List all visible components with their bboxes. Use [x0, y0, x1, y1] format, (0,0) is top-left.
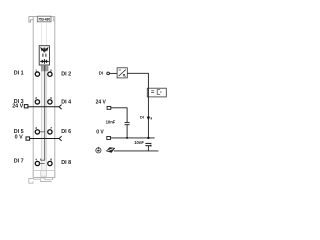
svg-text:DI 6: DI 6 — [61, 129, 71, 135]
svg-text:DI 7: DI 7 — [14, 158, 24, 164]
svg-text:0 V: 0 V — [96, 129, 104, 135]
DIN rail / shield clamp symbol — [106, 147, 115, 153]
0V feed wire — [30, 138, 59, 140]
upper wire channel — [42, 22, 47, 46]
junction dot DI wire/0V — [147, 137, 149, 139]
module part label box 753-430 — [37, 16, 51, 22]
svg-text:24 V: 24 V — [96, 99, 107, 105]
0V pass-through fork — [59, 136, 62, 141]
label 8 (channel marker) — [150, 145, 151, 147]
wire channel exit tab — [41, 171, 47, 177]
DIN rail foot — [29, 171, 55, 184]
LED symbols (antiparallel diode pair, top) — [40, 47, 48, 57]
terminal 6 — [48, 100, 52, 104]
wire 24V to filter cap — [111, 108, 127, 123]
0V rail wire — [111, 137, 155, 139]
svg-text:DI 1: DI 1 — [14, 71, 24, 77]
clamp spring hatch under LED box — [41, 65, 48, 71]
wire converter to bus line — [127, 73, 148, 88]
signal wire down through isolation — [147, 88, 149, 138]
svg-text:DI 4: DI 4 — [61, 100, 71, 106]
svg-text:DI 2: DI 2 — [61, 71, 71, 77]
0V field terminal (square) — [26, 137, 30, 140]
terminal 7 — [48, 130, 52, 134]
svg-text:10nF: 10nF — [134, 140, 144, 145]
wire stub row 3 — [40, 131, 45, 133]
24V terminal (schematic, square) — [107, 106, 111, 109]
24V feed wire — [28, 106, 59, 108]
center wiring channel — [41, 65, 46, 171]
schematic: DI input terminal — [107, 72, 110, 75]
terminal 2 — [35, 100, 39, 104]
0V terminal (schematic, square) — [107, 137, 111, 140]
internal signal wire — [41, 65, 45, 160]
terminal 4 — [35, 161, 39, 165]
filter capacitor C2 — [145, 143, 151, 151]
svg-text:0 V: 0 V — [15, 134, 23, 140]
terminal 1 — [35, 72, 39, 76]
junction dot C1/0V — [126, 137, 128, 139]
svg-text:753-430: 753-430 — [38, 18, 50, 22]
input signal conditioner U1 — [117, 68, 127, 78]
isolation / system interface box — [147, 88, 166, 97]
24V field terminal (square) — [24, 105, 28, 108]
terminal 3 — [35, 130, 39, 134]
wire stub row 4 — [40, 163, 45, 165]
svg-text:DI: DI — [140, 115, 144, 120]
earth rail wire — [114, 150, 159, 152]
label DI 1 with arrow — [140, 115, 152, 121]
svg-text:10nF: 10nF — [106, 120, 116, 125]
filter capacitor C1 — [125, 123, 130, 138]
module body outline — [33, 17, 55, 178]
terminal 8 — [48, 161, 52, 165]
svg-text:DI 8: DI 8 — [61, 160, 71, 166]
terminal 5 — [48, 72, 52, 76]
wire DI terminal to converter — [109, 72, 117, 74]
LED / status indicator box — [39, 46, 49, 65]
module top-right tab — [51, 17, 55, 21]
svg-text:24 V: 24 V — [12, 104, 23, 110]
module bottom shelf — [33, 170, 55, 172]
suppressor diode symbol (bottom row) — [40, 59, 49, 64]
svg-text:DI: DI — [99, 71, 103, 76]
module top-left latch hook — [29, 17, 33, 22]
functional earth circle symbol — [96, 147, 101, 153]
24V pass-through fork — [59, 105, 62, 110]
